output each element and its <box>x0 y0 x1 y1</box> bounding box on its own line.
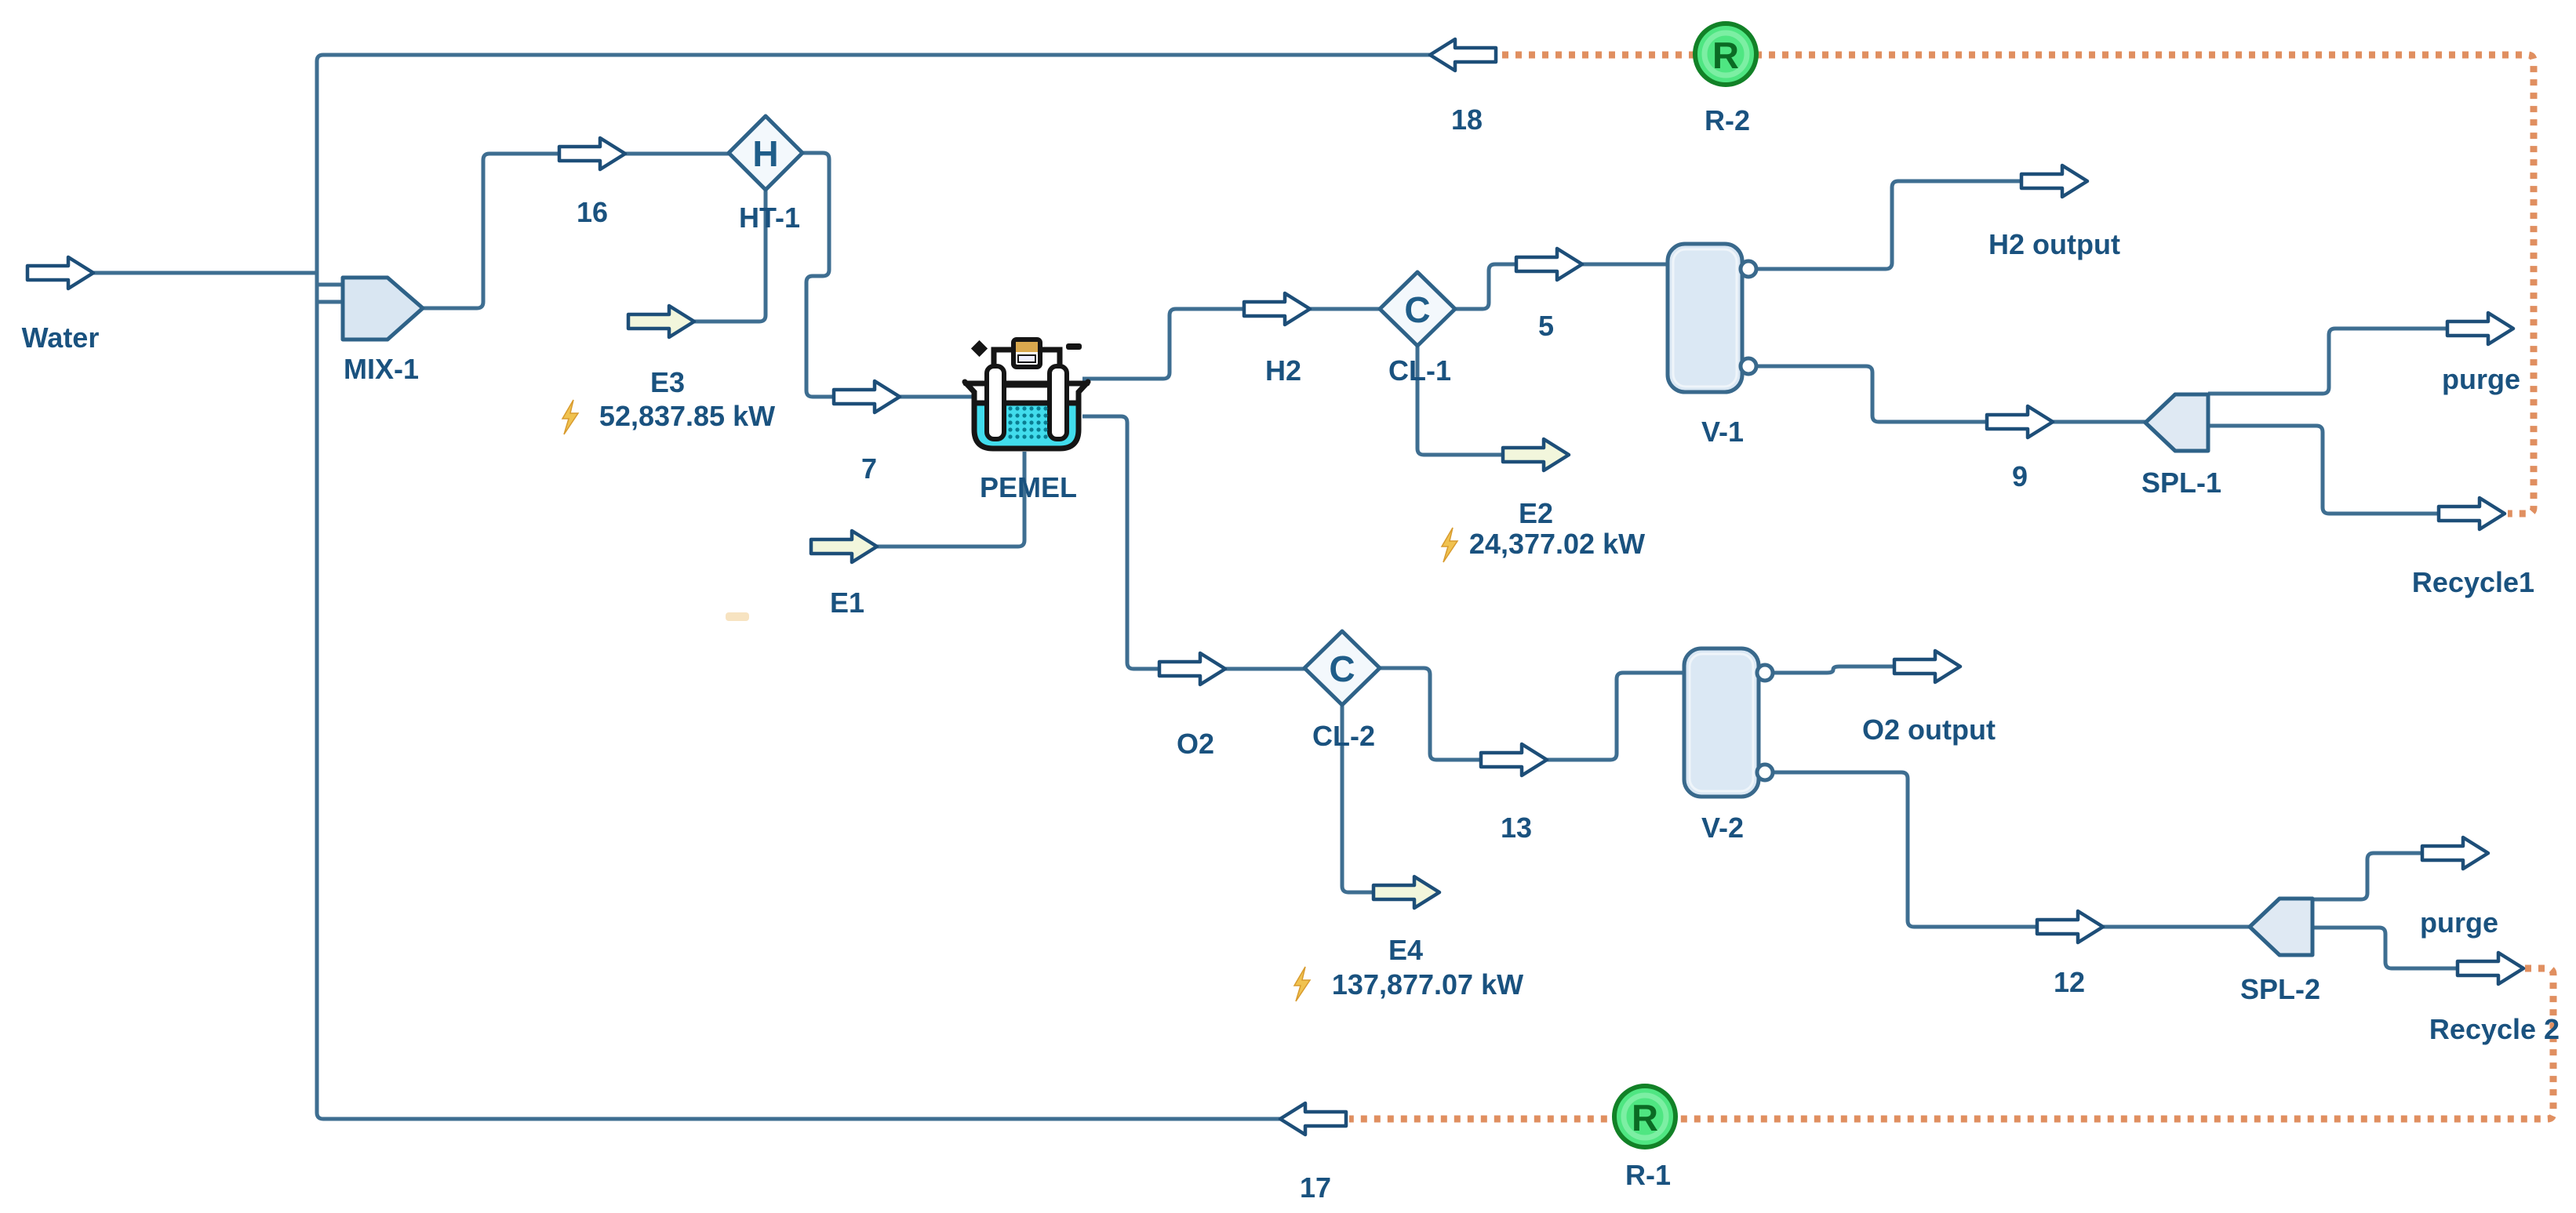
energy bolt E4 <box>1294 967 1310 1001</box>
svg-text:C: C <box>1404 289 1430 330</box>
splitter SPL-2 <box>2250 899 2312 955</box>
wire CL-1 outlet stream 5 to V-1 <box>1455 264 1668 309</box>
wire SPL-1 top outlet to purge <box>2208 329 2447 394</box>
svg-text:24,377.02 kW: 24,377.02 kW <box>1469 528 1645 560</box>
svg-text:H: H <box>752 133 778 174</box>
svg-text:O2 output: O2 output <box>1862 714 1996 746</box>
wire energy E1 to PEMEL bottom <box>877 452 1024 547</box>
recycle block R-2 <box>1695 24 1756 85</box>
electrolyzer PEMEL <box>965 337 1088 449</box>
svg-text:H2 output: H2 output <box>1988 228 2120 260</box>
wire CL-1 bottom to energy E2 <box>1417 346 1503 455</box>
wire SPL-2 top outlet to purge <box>2312 853 2422 899</box>
svg-text:O2: O2 <box>1177 728 1214 760</box>
recycle connector R-2 dotted line <box>1502 55 2534 514</box>
svg-text:R: R <box>1712 35 1739 76</box>
recycle block R-1 <box>1614 1086 1675 1147</box>
wire MIX-1 inlet ticks <box>317 285 344 302</box>
stream arrow 12 <box>2037 911 2103 942</box>
energy bolt E3 <box>562 400 578 434</box>
svg-text:Recycle 2: Recycle 2 <box>2429 1013 2560 1045</box>
mixer MIX-1 <box>343 278 423 340</box>
heater HT-1 <box>729 116 802 190</box>
svg-text:13: 13 <box>1501 812 1532 844</box>
wire CL-2 outlet stream 13 to V-2 <box>1380 668 1684 760</box>
svg-text:SPL-2: SPL-2 <box>2240 973 2320 1005</box>
wire HT-1 bottom to energy E3 <box>694 190 766 321</box>
stream arrow H2 <box>1244 293 1310 325</box>
wire HT-1 outlet to stream 7 to PEMEL <box>802 153 973 397</box>
svg-text:purge: purge <box>2442 363 2520 395</box>
svg-text:Recycle1: Recycle1 <box>2412 566 2534 598</box>
svg-text:CL-2: CL-2 <box>1312 720 1375 752</box>
wire PEMEL H2 outlet to CL-1 <box>1082 309 1380 379</box>
wire SPL-1 bottom outlet to Recycle1 <box>2208 426 2439 514</box>
svg-text:7: 7 <box>861 452 877 485</box>
stream arrow purge (top) <box>2447 313 2513 344</box>
stream arrow 17 <box>1280 1103 1346 1135</box>
svg-text:18: 18 <box>1451 104 1483 136</box>
wire V-2 top port to O2 output <box>1773 666 1894 673</box>
faint artifact mark <box>726 612 749 621</box>
cooler CL-1 <box>1380 272 1455 346</box>
wire CL-2 bottom to energy E4 <box>1342 705 1374 892</box>
svg-text:V-2: V-2 <box>1701 812 1744 844</box>
energy bolt E2 <box>1442 528 1457 562</box>
svg-text:purge: purge <box>2420 906 2498 939</box>
svg-text:PEMEL: PEMEL <box>980 471 1077 503</box>
wire recycle loop: top line, left vertical, bottom line to stream 17 <box>317 55 1430 1119</box>
svg-text:17: 17 <box>1300 1171 1331 1204</box>
energy arrow E4 <box>1374 877 1439 908</box>
wire V-2 bottom port to stream 12 to SPL-2 <box>1773 772 2250 927</box>
svg-text:137,877.07 kW: 137,877.07 kW <box>1332 968 1523 1001</box>
stream arrow 16 <box>559 138 625 169</box>
wire V-1 top port to H2 output <box>1756 181 2021 269</box>
cooler CL-2 <box>1304 631 1380 705</box>
svg-text:E2: E2 <box>1519 497 1553 529</box>
stream arrow purge (bottom) <box>2422 837 2488 869</box>
svg-text:16: 16 <box>577 196 608 228</box>
wire PEMEL O2 outlet to CL-2 <box>1082 416 1304 669</box>
svg-text:R-2: R-2 <box>1705 104 1750 136</box>
stream arrow O2 output <box>1894 651 1960 682</box>
stream arrow 13 <box>1481 744 1547 775</box>
stream arrow Recycle 2 <box>2458 953 2523 984</box>
svg-text:H2: H2 <box>1265 354 1301 387</box>
svg-text:V-1: V-1 <box>1701 416 1744 448</box>
stream arrow 9 <box>1987 406 2053 438</box>
recycle connector R-1 dotted line <box>1349 968 2553 1119</box>
wire V-1 bottom port to stream 9 to SPL-1 <box>1756 366 2145 422</box>
wire MIX-1 outlet to stream 16 to HT-1 <box>423 154 729 308</box>
energy arrow E1 <box>811 531 877 562</box>
stream arrow Water <box>27 257 93 289</box>
vessel V-2 <box>1684 648 1773 797</box>
svg-text:C: C <box>1329 648 1355 689</box>
svg-text:R-1: R-1 <box>1625 1159 1671 1191</box>
svg-text:9: 9 <box>2012 460 2028 492</box>
stream arrow 5 <box>1516 249 1582 280</box>
svg-text:52,837.85 kW: 52,837.85 kW <box>599 400 775 432</box>
energy arrow E3 <box>628 306 694 337</box>
stream arrow H2 output <box>2021 165 2087 197</box>
stream arrow 18 <box>1430 39 1496 71</box>
svg-text:E3: E3 <box>650 366 685 398</box>
svg-text:E4: E4 <box>1388 934 1423 966</box>
stream arrow O2 <box>1159 653 1225 685</box>
svg-text:Water: Water <box>22 321 100 354</box>
svg-text:MIX-1: MIX-1 <box>344 353 419 385</box>
vessel V-1 <box>1668 244 1756 392</box>
svg-text:HT-1: HT-1 <box>739 202 800 234</box>
energy arrow E2 <box>1503 439 1569 470</box>
svg-text:5: 5 <box>1538 310 1554 342</box>
stream arrow 7 <box>834 381 900 412</box>
svg-text:R: R <box>1632 1097 1658 1139</box>
svg-text:SPL-1: SPL-1 <box>2141 467 2221 499</box>
wire Water inlet to MIX-1 <box>93 271 317 275</box>
svg-text:CL-1: CL-1 <box>1388 354 1451 387</box>
stream arrow Recycle1 <box>2439 498 2505 529</box>
svg-text:12: 12 <box>2054 966 2085 998</box>
wire SPL-2 bottom outlet to Recycle 2 <box>2312 928 2458 968</box>
splitter SPL-1 <box>2145 394 2208 451</box>
svg-text:E1: E1 <box>830 587 864 619</box>
